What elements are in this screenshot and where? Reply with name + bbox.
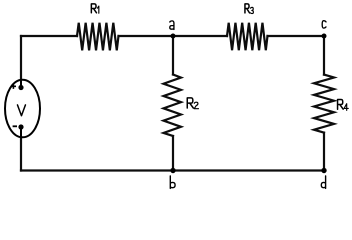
label R3 subscript 3 <box>250 7 253 13</box>
wire node a to R2 <box>172 36 174 75</box>
plus sign <box>11 84 16 89</box>
label R2 subscript 2 <box>194 102 198 109</box>
wire inside source bottom <box>20 127 22 137</box>
resistor R3 <box>227 23 268 50</box>
node d dot <box>321 168 326 173</box>
node a dot <box>171 34 176 39</box>
wire top-right segment <box>268 35 325 37</box>
node label c <box>322 21 326 28</box>
wire inside source top <box>20 80 22 88</box>
wire bottom <box>21 169 324 171</box>
label R4 subscript 4 <box>344 104 348 111</box>
node label a <box>170 21 174 30</box>
resistor R4 <box>314 75 334 133</box>
minus sign <box>13 125 17 127</box>
voltage source V ellipse <box>5 80 40 138</box>
label R1 subscript 1 <box>98 6 99 13</box>
node b dot <box>170 168 175 173</box>
node c dot <box>322 34 327 39</box>
terminal dot + <box>18 85 23 90</box>
wire top-middle segment <box>119 35 228 37</box>
wire left lower <box>20 127 22 171</box>
resistor R2 <box>164 75 182 137</box>
wire R2 to node b <box>172 136 174 171</box>
node label d <box>321 176 325 188</box>
wire top-left segment <box>21 35 77 37</box>
label R4 letter <box>338 100 344 110</box>
label R1 letter <box>91 4 96 13</box>
wire node c to R4 <box>323 36 325 75</box>
wire R4 to node d <box>323 133 325 171</box>
wire left upper <box>20 36 22 88</box>
resistor R1 <box>77 23 119 51</box>
label R3 letter <box>245 4 250 13</box>
label V <box>17 105 25 116</box>
node label b <box>170 176 175 188</box>
label R2 letter <box>187 98 193 108</box>
terminal dot - <box>18 124 23 129</box>
